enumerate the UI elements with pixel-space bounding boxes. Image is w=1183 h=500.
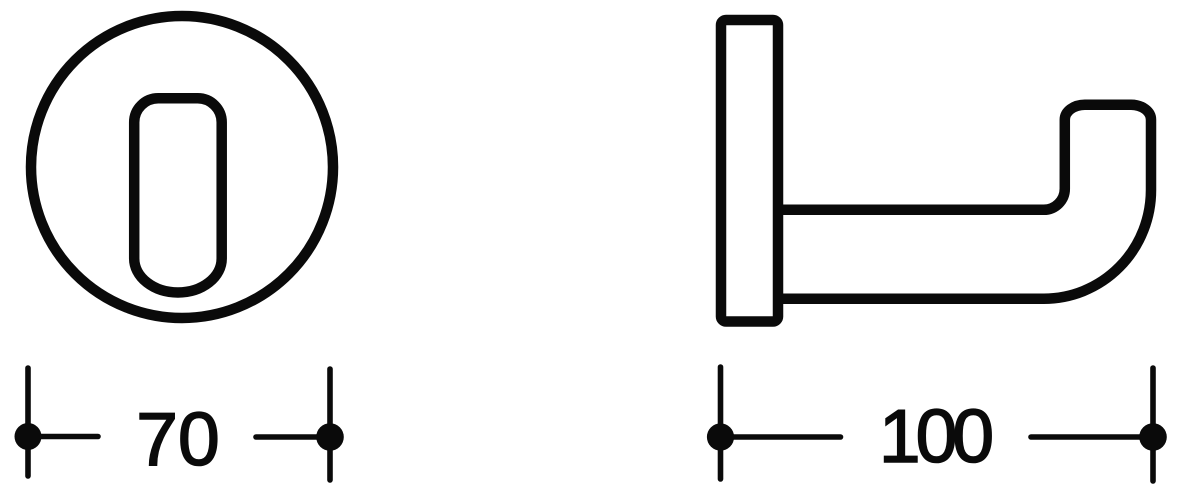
svg-text:100: 100 <box>879 394 991 478</box>
svg-text:70: 70 <box>136 397 219 481</box>
